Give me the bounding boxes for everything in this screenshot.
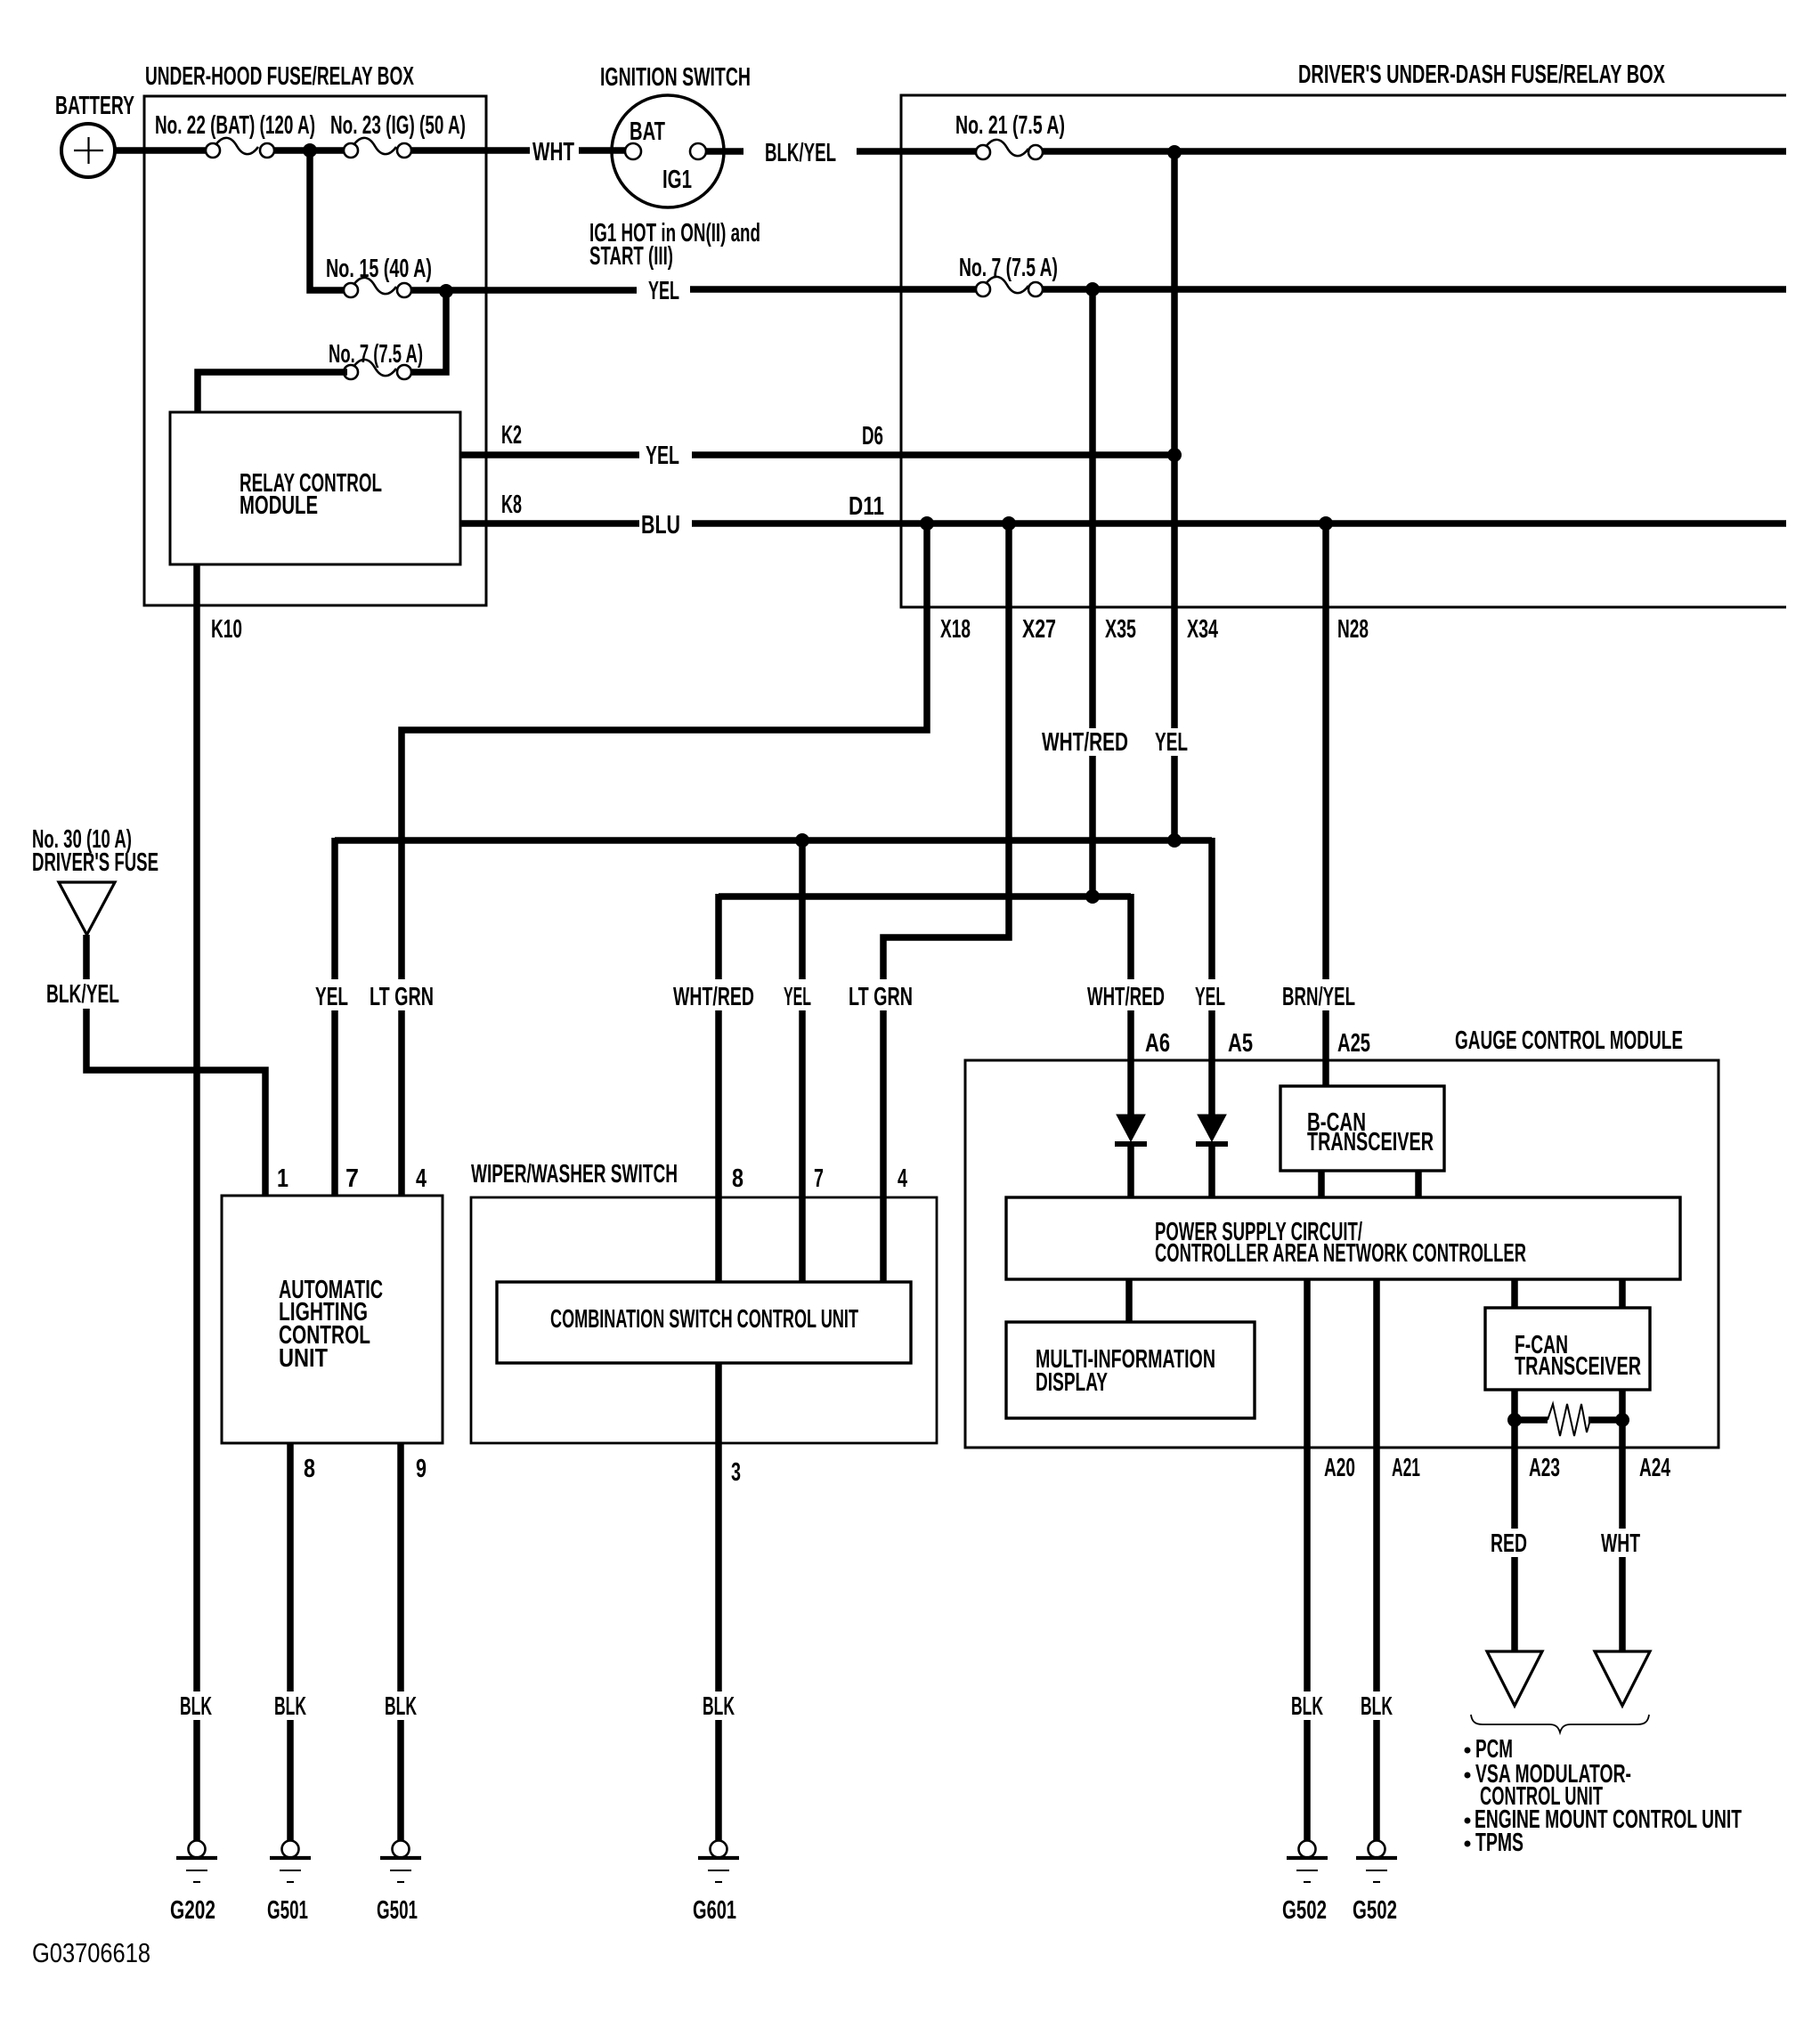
wire comb pin7 lower (799, 1010, 806, 1282)
relay control module text (240, 469, 382, 520)
svg-text:CONTROLLER AREA NETWORK CONTRO: CONTROLLER AREA NETWORK CONTROLLER (1155, 1239, 1526, 1268)
fuse No.23 label (330, 111, 466, 140)
ground G501 a (270, 1841, 311, 1883)
svg-text:GAUGE CONTROL MODULE: GAUGE CONTROL MODULE (1455, 1026, 1683, 1055)
wire fuse21 to junction (1043, 148, 1786, 155)
wire ALCU pin4 lower (398, 1010, 405, 1196)
ground G501 b (380, 1841, 421, 1883)
svg-text:8: 8 (732, 1164, 743, 1193)
terminal IG1 label (662, 166, 692, 194)
pin A6 label (1145, 1029, 1170, 1058)
ground G502 b (1356, 1841, 1397, 1883)
wire power supply to F-CAN left (1511, 1279, 1518, 1308)
svg-text:4: 4 (898, 1164, 907, 1193)
wire label BLK K10/G202 (180, 1692, 212, 1721)
svg-text:G502: G502 (1282, 1896, 1327, 1925)
wire label WHT (1601, 1529, 1640, 1558)
svg-text:BLK/YEL: BLK/YEL (46, 980, 119, 1009)
pin A25 label (1337, 1029, 1370, 1058)
wire ALCU pin9 to ground (397, 1443, 404, 1691)
wire WHT to ignition BAT terminal (579, 147, 626, 154)
svg-text:MODULE: MODULE (240, 491, 318, 520)
wire B-CAN right to power supply (1415, 1171, 1422, 1197)
svg-text:X35: X35 (1105, 615, 1136, 644)
wire YEL to under-dash fuse 7 (690, 286, 976, 293)
wire label YEL ignition feed (648, 277, 679, 305)
wire N28 vertical lower to B-CAN (1322, 1010, 1329, 1086)
wire A5 upper (1208, 838, 1215, 979)
wire junction to fuse23 (313, 147, 345, 154)
svg-text:LT GRN: LT GRN (849, 983, 913, 1011)
svg-text:WHT/RED: WHT/RED (673, 983, 754, 1011)
svg-text:8: 8 (304, 1455, 315, 1483)
wire A21 lower to ground (1373, 1720, 1380, 1840)
node junction comb pin7 on YEL bus (795, 833, 809, 848)
wire label BLK/YEL No.30 (46, 980, 119, 1009)
wire B-CAN left to power supply (1318, 1171, 1325, 1197)
combination switch control unit text (550, 1305, 858, 1334)
pin A21 label (1392, 1454, 1420, 1482)
ground G601 label (693, 1896, 736, 1925)
svg-text:UNDER-HOOD FUSE/RELAY BOX: UNDER-HOOD FUSE/RELAY BOX (145, 62, 414, 91)
svg-text:9: 9 (416, 1455, 427, 1483)
wire A23 lower (1511, 1557, 1518, 1651)
svg-text:COMBINATION SWITCH CONTROL UNI: COMBINATION SWITCH CONTROL UNIT (550, 1305, 858, 1334)
wire ALCU pin9 lower to ground (397, 1720, 404, 1840)
wire label WHT (532, 138, 574, 166)
wire K8 BLU left segment (460, 520, 639, 527)
fuse No.22 (BAT 120A) (206, 138, 274, 158)
battery B1 (61, 124, 115, 177)
svg-text:BRN/YEL: BRN/YEL (1282, 983, 1355, 1011)
wire label BLK/YEL (765, 139, 836, 167)
F-CAN transceiver box (1485, 1308, 1650, 1390)
fuse No.7 under-dash label (959, 254, 1058, 282)
ignition switch label (600, 63, 751, 92)
ALCU pin 7 label (345, 1164, 359, 1193)
ground G502 a label (1282, 1896, 1327, 1925)
svg-text:YEL: YEL (646, 442, 679, 470)
node junction X18 on BLU (920, 516, 934, 531)
ground G501 a label (267, 1896, 308, 1925)
svg-text:G601: G601 (693, 1896, 736, 1925)
comb switch pin 3 label (731, 1458, 741, 1487)
svg-text:7: 7 (345, 1164, 359, 1193)
svg-text:D11: D11 (849, 492, 884, 521)
wire X35 vertical upper (1089, 289, 1096, 728)
arrow to PCM group left (1487, 1651, 1542, 1706)
wire junction right to YEL (449, 287, 637, 294)
wire label WHT/RED A6 (1087, 983, 1165, 1011)
wire K10 down from relay module (193, 564, 200, 1691)
fuse No.15 (40A) (344, 278, 411, 297)
wire label BLK comb pin3 (703, 1692, 735, 1721)
svg-text:4: 4 (416, 1164, 427, 1193)
ALCU pin 9 label (416, 1455, 427, 1483)
fuse No.30 driver's fuse label (32, 825, 158, 877)
node junction D6 on X34 line (1167, 448, 1182, 462)
svg-text:YEL: YEL (784, 983, 811, 1011)
svg-text:G03706618: G03706618 (32, 1937, 150, 1968)
F-CAN transceiver text (1515, 1331, 1641, 1381)
wire WHT/RED bus horizontal (719, 893, 1131, 900)
fuse No.23 (IG 50A) (344, 138, 411, 158)
comb switch pin 8 label (732, 1164, 743, 1193)
ALCU pin 1 label (277, 1164, 288, 1193)
pin X27 label (1022, 615, 1056, 644)
wire YEL bus horizontal (335, 837, 1212, 844)
wire label YEL X34 (1155, 728, 1188, 757)
fuse No.30 symbol (59, 882, 115, 935)
pin X35 label (1105, 615, 1136, 644)
gauge control module box (965, 1060, 1718, 1448)
svg-text:N28: N28 (1337, 615, 1369, 644)
wire ALCU pin8 lower to ground (287, 1720, 294, 1840)
node junction X27 on BLU (1002, 516, 1016, 531)
svg-text:X34: X34 (1187, 615, 1218, 644)
ALCU pin 4 label (416, 1164, 427, 1193)
svg-text:7: 7 (814, 1164, 824, 1193)
svg-text:A25: A25 (1337, 1029, 1370, 1058)
svg-text:YEL: YEL (1155, 728, 1188, 757)
wire label BLK A20 (1291, 1692, 1323, 1721)
svg-text:A20: A20 (1324, 1454, 1355, 1482)
svg-text:BAT: BAT (630, 118, 665, 146)
svg-text:A21: A21 (1392, 1454, 1420, 1482)
under-hood fuse/relay box label (145, 62, 414, 91)
pin K10 label (211, 615, 242, 644)
node junction fuse21/X34 (1167, 145, 1182, 159)
svg-text:BLK: BLK (1361, 1692, 1393, 1721)
node junction A24/resistor (1615, 1413, 1629, 1427)
svg-text:UNIT: UNIT (279, 1344, 328, 1373)
ALCU pin 8 label (304, 1455, 315, 1483)
fuse No.21 (7.5A) (976, 140, 1043, 159)
node junction X34 into YEL bus (1167, 833, 1182, 848)
wire ALCU pin8 to ground (287, 1443, 294, 1691)
wire comb pin8 upper (715, 894, 722, 979)
svg-text:YEL: YEL (1195, 983, 1225, 1011)
svg-text:WHT/RED: WHT/RED (1087, 983, 1165, 1011)
svg-text:K8: K8 (501, 491, 522, 519)
wire K2 YEL right segment to D6 (692, 451, 1171, 458)
svg-text:DRIVER'S UNDER-DASH FUSE/RELAY: DRIVER'S UNDER-DASH FUSE/RELAY BOX (1298, 61, 1665, 89)
node junction fuse7ud/X35 (1085, 282, 1100, 296)
svg-text:WHT: WHT (1601, 1529, 1640, 1558)
wire label LT GRN comb pin4 (849, 983, 913, 1011)
node junction fuse22/fuse23/fuse15 (303, 143, 317, 158)
wiper/washer switch label (471, 1160, 678, 1188)
wire label WHT/RED X35 (1042, 728, 1128, 757)
svg-text:No. 7 (7.5 A): No. 7 (7.5 A) (329, 340, 423, 369)
comb switch pin 7 label (814, 1164, 824, 1193)
wire A6 to diode (1127, 1010, 1134, 1115)
svg-text:WHT/RED: WHT/RED (1042, 728, 1128, 757)
multi-information display text (1036, 1345, 1215, 1397)
driver's under-dash fuse/relay box label (1298, 61, 1665, 89)
fuse No.7 (7.5A) under-dash (976, 277, 1043, 296)
svg-text:DRIVER'S FUSE: DRIVER'S FUSE (32, 848, 158, 877)
wire fuse23 to WHT label (411, 147, 530, 154)
wire label YEL A5 (1195, 983, 1225, 1011)
wire junction down to fuse15 (310, 148, 345, 290)
svg-text:BLK: BLK (703, 1692, 735, 1721)
wire No.30 upper (83, 935, 90, 979)
svg-text:BLK: BLK (385, 1692, 417, 1721)
wire label BLU (641, 511, 680, 539)
svg-text:X27: X27 (1022, 615, 1056, 644)
ground G601 (698, 1841, 739, 1883)
svg-text:X18: X18 (940, 615, 971, 644)
wire N28 vertical upper (1322, 526, 1329, 979)
B-CAN transceiver box (1280, 1086, 1444, 1171)
wire fuse15 to junction (411, 287, 443, 294)
wire power supply to F-CAN right (1619, 1279, 1626, 1308)
svg-text:No. 21 (7.5 A): No. 21 (7.5 A) (955, 111, 1065, 140)
ignition IG1 terminal (690, 143, 706, 159)
pin A20 label (1324, 1454, 1355, 1482)
svg-text:BLK/YEL: BLK/YEL (765, 139, 836, 167)
wire battery to fuse 22 (115, 147, 207, 154)
svg-text:G501: G501 (267, 1896, 308, 1925)
wire label YEL comb pin7 (784, 983, 811, 1011)
wire F-CAN right down A24 (1619, 1390, 1626, 1529)
wire X27 branch to comb pin4 (883, 526, 1009, 979)
wire No.30 to ALCU pin1 (86, 1009, 265, 1196)
wire label WHT/RED comb pin8 (673, 983, 754, 1011)
wire ALCU pin7 upper (331, 838, 338, 979)
wire junction down to fuse7 (411, 288, 446, 372)
wire K8 BLU right segment (692, 520, 1786, 527)
wire A21 from power supply (1373, 1279, 1380, 1691)
resistor R1 termination (1521, 1404, 1616, 1436)
pin A24 label (1639, 1454, 1670, 1482)
svg-text:A24: A24 (1639, 1454, 1670, 1482)
svg-text:TRANSCEIVER: TRANSCEIVER (1515, 1352, 1641, 1381)
wire BLK/YEL to under-dash fuse 21 (857, 148, 976, 155)
ground G202 label (170, 1896, 215, 1925)
wire comb pin7 upper (799, 840, 806, 979)
brace under arrows (1471, 1715, 1649, 1732)
svg-text:YEL: YEL (315, 983, 348, 1011)
svg-text:TPMS: TPMS (1475, 1829, 1523, 1857)
pin X18 label (940, 615, 971, 644)
pin A23 label (1529, 1454, 1560, 1482)
svg-text:G502: G502 (1353, 1896, 1397, 1925)
wire fuse7ud to right edge (1043, 286, 1786, 293)
wire A20 lower to ground (1304, 1720, 1311, 1840)
fuse No.22 label (155, 111, 315, 140)
svg-text:No. 15 (40 A): No. 15 (40 A) (326, 255, 432, 283)
svg-text:A6: A6 (1145, 1029, 1170, 1058)
svg-text:1: 1 (277, 1164, 288, 1193)
wire label RED (1491, 1529, 1527, 1558)
wire X18 branch to ALCU pin4 (402, 526, 927, 979)
wire A6 upper (1127, 894, 1134, 979)
node junction fuse15/fuse7 (439, 284, 453, 298)
wire A6 diode to power supply (1127, 1147, 1134, 1197)
svg-text:DISPLAY: DISPLAY (1036, 1368, 1108, 1397)
svg-text:START (III): START (III) (589, 242, 673, 271)
fuse No.7 (7.5A) under-hood (344, 360, 411, 379)
comb switch pin 4 label (898, 1164, 907, 1193)
diode D2 on A5 (1196, 1115, 1228, 1144)
wire X35 vertical lower (1089, 756, 1096, 896)
svg-text:RED: RED (1491, 1529, 1527, 1558)
wire label BRN/YEL (1282, 983, 1355, 1011)
pin D11 label (849, 492, 884, 521)
wire label BLK ALCU pin9 (385, 1692, 417, 1721)
svg-text:No. 7 (7.5 A): No. 7 (7.5 A) (959, 254, 1058, 282)
fuse No.7 underhood label (329, 340, 423, 369)
relay control module box (170, 412, 460, 564)
svg-text:K10: K10 (211, 615, 242, 644)
pin K8 label (501, 491, 522, 519)
wire F-CAN left down A23 (1511, 1390, 1518, 1529)
wiper/washer switch box (471, 1197, 937, 1443)
wire comb pin8 lower (715, 1010, 722, 1282)
wire comb pin3 to ground (715, 1363, 722, 1691)
wire A20 from power supply (1304, 1279, 1311, 1691)
fuse No.15 label (326, 255, 432, 283)
wire comb pin3 lower to ground (715, 1720, 722, 1840)
wire A24 lower (1619, 1557, 1626, 1651)
diode D1 on A6 (1115, 1115, 1147, 1144)
svg-text:BATTERY: BATTERY (55, 92, 134, 120)
terminal BAT label (630, 118, 665, 146)
svg-text:TRANSCEIVER: TRANSCEIVER (1307, 1128, 1434, 1156)
node junction A23/resistor (1507, 1413, 1522, 1427)
svg-text:IGNITION SWITCH: IGNITION SWITCH (600, 63, 751, 92)
ground G502 a (1287, 1841, 1328, 1883)
wire label BLK A21 (1361, 1692, 1393, 1721)
battery B1 label (55, 92, 134, 120)
B-CAN transceiver text (1307, 1108, 1434, 1156)
wire label YEL ALCU pin7 (315, 983, 348, 1011)
wire X34 vertical upper (1171, 152, 1178, 728)
gauge control module label (1455, 1026, 1683, 1055)
wire fuse7 left to relay module (198, 372, 347, 412)
pin N28 label (1337, 615, 1369, 644)
wire K2 YEL left segment (460, 451, 639, 458)
svg-text:G501: G501 (377, 1896, 418, 1925)
wire label YEL K2-D6 (646, 442, 679, 470)
ground G502 b label (1353, 1896, 1397, 1925)
multi-information display box (1006, 1322, 1255, 1418)
figure id G03706618 (32, 1937, 150, 1968)
svg-text:No. 23 (IG) (50 A): No. 23 (IG) (50 A) (330, 111, 466, 140)
pin X34 label (1187, 615, 1218, 644)
svg-text:K2: K2 (501, 421, 522, 450)
svg-text:BLK: BLK (1291, 1692, 1323, 1721)
wire A5 to diode (1208, 1010, 1215, 1115)
wire ALCU pin7 lower (331, 1010, 338, 1196)
ground G501 b label (377, 1896, 418, 1925)
wire IG1 to BLK/YEL label (706, 148, 743, 155)
pin A5 label (1228, 1029, 1253, 1058)
wire power supply to MID (1125, 1279, 1133, 1322)
driver's under-dash fuse/relay box (901, 95, 1786, 607)
wire comb pin4 lower (880, 1010, 887, 1282)
ignition BAT terminal (625, 143, 641, 159)
power supply circuit box (1006, 1197, 1680, 1279)
combination switch control unit box (497, 1282, 911, 1363)
svg-text:WHT: WHT (532, 138, 574, 166)
svg-text:BLK: BLK (274, 1692, 306, 1721)
ground G202 (176, 1841, 217, 1883)
wire fuse22 to junction (274, 147, 307, 154)
wire label BLK ALCU pin8 (274, 1692, 306, 1721)
wire label LT GRN ALCU pin4 (370, 983, 434, 1011)
pin K2 label (501, 421, 522, 450)
power supply circuit text (1155, 1218, 1526, 1268)
svg-text:BLU: BLU (641, 511, 680, 539)
svg-text:YEL: YEL (648, 277, 679, 305)
svg-text:IG1: IG1 (662, 166, 692, 194)
destination list (1465, 1735, 1743, 1857)
svg-text:A23: A23 (1529, 1454, 1560, 1482)
svg-text:No. 22 (BAT) (120 A): No. 22 (BAT) (120 A) (155, 111, 315, 140)
wire K10/G202 lower to ground (193, 1720, 200, 1840)
svg-text:A5: A5 (1228, 1029, 1253, 1058)
pin D6 label (862, 422, 883, 450)
svg-text:3: 3 (731, 1458, 741, 1487)
svg-text:LT GRN: LT GRN (370, 983, 434, 1011)
svg-text:G202: G202 (170, 1896, 215, 1925)
svg-text:D6: D6 (862, 422, 883, 450)
svg-text:BLK: BLK (180, 1692, 212, 1721)
automatic lighting control unit box (222, 1196, 443, 1443)
note IG1 HOT (589, 219, 760, 271)
ignition switch S1 (612, 95, 724, 207)
arrow to PCM group right (1595, 1651, 1650, 1706)
wire X34 vertical lower (1171, 756, 1178, 840)
svg-text:WIPER/WASHER SWITCH: WIPER/WASHER SWITCH (471, 1160, 678, 1188)
wire A5 diode to power supply (1208, 1147, 1215, 1197)
node junction N28 on BLU (1319, 516, 1333, 531)
fuse No.21 label (955, 111, 1065, 140)
node junction X35 into WHT/RED bus (1085, 889, 1100, 904)
under-hood fuse/relay box (144, 96, 486, 605)
automatic lighting control unit text (279, 1276, 383, 1373)
